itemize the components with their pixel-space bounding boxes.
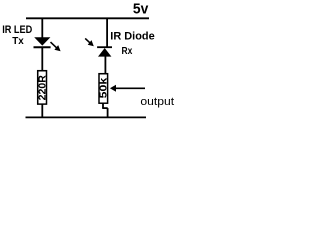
wire: LED cathode to resistor R1 [41,48,43,71]
svg-text:50k: 50k [99,77,110,98]
resistor R1 220R box [38,71,47,104]
LED D1 cathode bar [34,46,51,48]
wire: +5v top rail [26,17,149,19]
wire: rail to photodiode cathode [106,18,108,47]
wire: photodiode anode to resistor R2 [104,56,106,74]
svg-text:5v: 5v [133,2,148,18]
wire: R1 to bottom rail [41,104,43,118]
wire: bottom 0v rail [26,116,147,118]
Tx emission arrow [51,42,61,51]
wire: R2 bottom jog to rail [102,103,108,118]
svg-text:Tx: Tx [12,35,24,47]
photodiode D2 triangle (pointing up) [98,48,111,57]
LED D1 triangle (anode top, pointing down) [34,37,50,45]
svg-text:IR Diode: IR Diode [110,30,154,42]
wire: rail to LED anode [41,18,43,39]
svg-text:output: output [140,96,174,108]
output arrow [110,85,145,92]
svg-text:Rx: Rx [122,45,133,57]
svg-text:220R: 220R [38,74,49,100]
photodiode D2 cathode bar [97,46,112,48]
Rx incoming light arrow [85,38,94,46]
resistor R2 50k box [99,74,108,104]
